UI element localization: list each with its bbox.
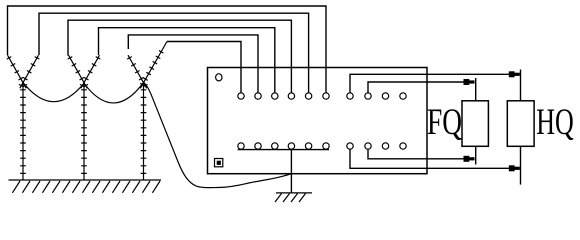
wire bus4 (electrode E2 right lead to terminal 3): [99, 28, 275, 93]
electrode E3 right arm wire with insulator ticks: [140, 42, 167, 89]
device HQ body: [507, 101, 534, 147]
svg-text:HQ: HQ: [536, 102, 574, 143]
wire terminal 18 (bottom) to FQ bottom, with plug arrow: [368, 149, 474, 159]
electrode E2 left arm wire with insulator ticks: [68, 55, 88, 88]
wire terminal 17 (bottom) to HQ bottom, with plug arrow: [350, 149, 519, 168]
wire catenary span E1-E2: [23, 83, 84, 102]
arrow (plug into FQ bottom): [464, 156, 475, 162]
device HQ lead (bottom): [520, 146, 522, 184]
bus bar linking bottom terminals 11-16: [238, 149, 329, 151]
wire bus6 (electrode E3 right lead to terminal 1): [167, 42, 241, 93]
screw hole (ellipse, board top-left): [216, 74, 222, 81]
device FQ body: [462, 101, 488, 147]
electrode E1 left arm wire with insulator ticks: [7, 55, 27, 88]
device FQ lead (bottom): [475, 146, 477, 164]
electrode E2 right arm wire with insulator ticks: [80, 55, 100, 88]
indicator square (board bottom-left): [215, 159, 223, 167]
wire terminal 8 (top) to FQ top, with plug arrow: [368, 82, 474, 93]
terminal row (top, terminals 1-10): [238, 93, 406, 99]
terminal row (bottom, terminals 11-20): [238, 143, 406, 149]
wire bus2 (electrode E1 right lead to terminal 5): [39, 13, 309, 93]
terminal board (test panel) outline: [208, 68, 428, 174]
electrode E3 mast (vertical rod with ticks): [141, 83, 147, 181]
device HQ lead (top): [520, 70, 522, 101]
wire bus3 (electrode E2 left lead to terminal 4): [68, 20, 291, 93]
arrow (plug into FQ top): [464, 79, 475, 85]
wire terminal 7 (top) to HQ top, with plug arrow: [350, 74, 519, 93]
ground (earth surface under electrodes): [9, 180, 162, 193]
electrode E3 left arm wire with insulator ticks: [127, 55, 147, 88]
wire catenary span E2-E3: [84, 83, 144, 103]
arrow (plug into HQ top): [509, 71, 520, 77]
electrode E1 mast (vertical rod with ticks): [20, 83, 26, 181]
ground (earth symbol below board): [275, 193, 312, 202]
svg-text:FQ: FQ: [427, 102, 462, 143]
device FQ lead (top): [475, 78, 477, 101]
wire bus1 (electrode E1 left lead to terminal 6): [8, 6, 327, 93]
wire earth lead from bus bar: [290, 150, 292, 193]
electrode E2 mast (vertical rod with ticks): [81, 83, 87, 181]
wire bus5 (electrode E3 left lead to terminal 2): [128, 35, 258, 93]
electrode E1 right arm wire with insulator ticks: [19, 55, 39, 88]
arrow (plug into HQ bottom): [509, 165, 520, 171]
wire from electrode E3 to earthing point (long curve): [144, 82, 292, 187]
